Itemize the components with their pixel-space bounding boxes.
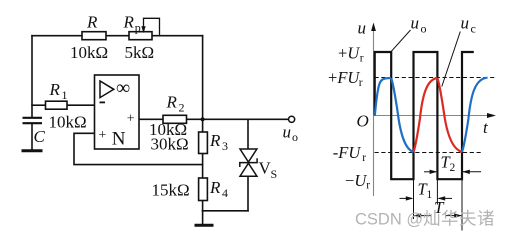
svg-text:10kΩ: 10kΩ [70,43,108,62]
svg-text:u: u [411,14,420,33]
svg-text:S: S [271,167,278,181]
resistor R4 [199,178,208,201]
resistor R2 [163,115,187,123]
uc curve segment 1 (blue rise from origin) [375,78,391,115]
svg-text:∞: ∞ [116,77,130,99]
svg-text:2: 2 [450,162,456,174]
callout line uo [391,30,411,52]
op-amp N box [95,75,140,149]
capacitor C [23,118,43,123]
wire Vs bottom [247,176,249,211]
svg-text:r: r [362,152,366,164]
svg-text:15kΩ: 15kΩ [152,181,190,200]
svg-text:5kΩ: 5kΩ [125,43,155,62]
wire top-left segment [32,35,82,37]
zener pair Vs top diode [240,149,257,162]
svg-text:o: o [421,22,427,36]
resistor R3 [199,132,208,154]
uc curve segment 5 (blue rise) [462,78,488,152]
svg-text:R: R [209,178,221,197]
dimension T2 arrows [424,171,481,173]
svg-text:1: 1 [427,189,433,201]
svg-text:u: u [283,123,292,142]
square wave uo [375,52,474,179]
svg-text:+: + [127,112,135,127]
svg-text:o: o [292,130,298,144]
wire Vs top [247,119,249,149]
wire left vertical [31,36,33,118]
svg-text:r: r [360,53,364,65]
svg-text:4: 4 [222,186,228,200]
svg-text:R: R [123,13,135,32]
extension line t3 edge [436,179,438,204]
svg-text:−U: −U [345,171,367,190]
svg-text:u: u [358,19,367,38]
svg-text:30kΩ: 30kΩ [151,135,189,154]
svg-text:N: N [112,129,126,150]
svg-text:+FU: +FU [328,68,360,87]
svg-text:R: R [166,93,178,112]
svg-text:c: c [471,22,476,36]
svg-text:-FU: -FU [333,143,362,162]
svg-text:CSDN @: CSDN @ [355,211,423,229]
dimension T arrows [414,215,461,217]
wire R2 to node [187,118,203,120]
t axis (gray) [374,115,493,117]
svg-text:1: 1 [62,88,68,102]
wire node to R3 [202,119,204,132]
dimension T1 arrows [400,197,453,199]
extension line t2 edge [413,179,415,219]
ground (capacitor) [22,149,43,152]
potentiometer Rp [129,32,152,40]
resistor R [82,32,106,40]
zener pair Vs bottom diode [240,163,257,176]
dashed -FUr line [375,152,482,154]
svg-text:C: C [34,127,46,146]
wire R1 to inverting input [67,104,95,106]
wire noninverting input to divider [74,133,203,164]
wire node to R1 [32,104,46,106]
wire bottom rail [203,210,248,212]
wire R4 to bottom rail [202,201,204,211]
extension line t4 edge [461,179,463,230]
dashed +FUr line [375,77,497,79]
svg-text:R: R [49,80,61,99]
svg-text:u: u [461,14,470,33]
output terminal circle [289,116,295,122]
svg-text:r: r [366,180,370,192]
ground (R4) [195,224,214,227]
op-amp minus mark [100,101,106,103]
uc curve segment 2 (blue fall) [391,78,413,152]
wire capacitor to ground [31,123,33,150]
svg-text:p: p [135,21,141,35]
wire between R and Rp [106,35,129,37]
uc curve segment 3 (red rise) [414,78,438,152]
wire op-amp output to R2 [139,118,163,120]
wire node to output terminal [203,118,289,120]
wire right vertical feedback [202,36,204,120]
svg-text:R: R [86,13,98,32]
svg-text:3: 3 [222,139,228,153]
svg-text:O: O [357,111,369,130]
svg-text:+: + [99,128,107,143]
u axis (gray) [373,25,375,196]
zener pair Vs bar [240,158,257,167]
svg-text:2: 2 [179,101,185,115]
wire R3 to R4 [202,154,204,179]
svg-text:10kΩ: 10kΩ [49,113,87,132]
potentiometer Rp wiper [144,18,160,35]
svg-text:R: R [209,131,221,150]
svg-text:+U: +U [338,43,360,62]
node after R2 (junction dot) [201,117,205,121]
wire Rp to top-right corner [152,35,203,37]
resistor R1 [46,101,68,109]
callout line uc [442,32,461,87]
svg-text:r: r [359,77,363,89]
uc curve segment 4 (red fall) [437,78,462,152]
op-amp triangle symbol [100,81,114,98]
wire ground stub [202,211,204,224]
